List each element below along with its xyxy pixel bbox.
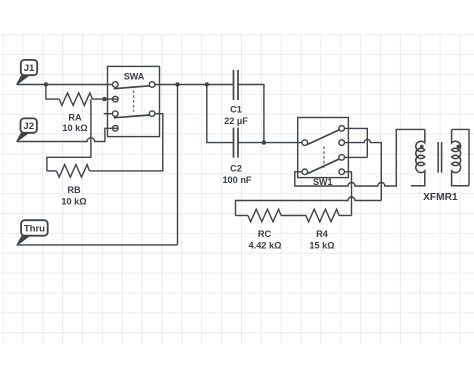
wire C1 right down bbox=[238, 85, 264, 143]
SWA pin 5 (right common pole1) bbox=[149, 82, 155, 88]
SW1 lever pole1 bbox=[307, 130, 338, 145]
svg-text:RA: RA bbox=[68, 113, 82, 123]
wire RC lead-in bbox=[236, 215, 249, 217]
capacitor C1 bbox=[234, 70, 239, 100]
SWA lever pole2 bbox=[114, 115, 150, 118]
wire SW1 row2 to RC (hop over row1 wire) bbox=[345, 139, 382, 200]
wire RA right end down bbox=[47, 99, 91, 171]
transformer XFMR1 core bbox=[438, 142, 441, 173]
svg-text:10 kΩ: 10 kΩ bbox=[61, 197, 86, 207]
SW1 pin right row4 bbox=[339, 169, 345, 175]
resistor R4 bbox=[306, 209, 339, 222]
svg-text:C2: C2 bbox=[230, 164, 242, 174]
wire Thru horizontal bbox=[17, 244, 178, 246]
svg-text:100 nF: 100 nF bbox=[222, 175, 251, 185]
SWA pin 2 (left row2) bbox=[113, 96, 119, 102]
wire SW1 row4 down to R4 bbox=[345, 172, 352, 216]
svg-text:XFMR1: XFMR1 bbox=[423, 192, 458, 203]
XFMR1 primary polarity dot bbox=[420, 145, 424, 149]
SW1 pin left common pole1 bbox=[302, 140, 308, 146]
node junction to C2 branch bbox=[205, 82, 209, 86]
svg-text:Thru: Thru bbox=[24, 223, 45, 234]
wire branch down to C2 bbox=[207, 85, 234, 143]
wire J2 to SWA pin4 (hop over RA wire) bbox=[17, 128, 119, 141]
wire SW1 pole2 to XFMR1 (hops over two verticals) bbox=[295, 129, 425, 186]
svg-text:J2: J2 bbox=[23, 121, 34, 132]
transformer XFMR1 primary winding bbox=[411, 129, 425, 185]
svg-text:22 µF: 22 µF bbox=[224, 116, 248, 126]
transformer XFMR1 secondary winding bbox=[452, 129, 469, 185]
wire Thru up to J1 net bbox=[177, 85, 179, 245]
svg-text:RB: RB bbox=[67, 185, 81, 195]
svg-text:RC: RC bbox=[258, 229, 272, 239]
svg-text:J1: J1 bbox=[24, 63, 35, 74]
SW1 pin right row1 bbox=[339, 126, 345, 132]
wire junction down to RA bbox=[46, 85, 59, 100]
node junction C1-C2 right bbox=[262, 140, 266, 144]
SW1 lever pole2 bbox=[307, 159, 338, 173]
SWA pin 1 (left row1) bbox=[113, 82, 119, 88]
net flag J1 bbox=[17, 74, 31, 84]
node junction Thru-C1 net bbox=[175, 82, 179, 86]
SWA pin 6 (right common pole2) bbox=[149, 111, 155, 117]
SW1 pin right row3 bbox=[339, 155, 345, 161]
resistor RB bbox=[57, 165, 90, 178]
net flag J2 bbox=[17, 132, 30, 142]
node junction RA-SWA pin2 bbox=[102, 97, 106, 101]
SWA mechanical link (dashed) bbox=[133, 90, 135, 111]
SWA lever pole1 bbox=[114, 86, 150, 89]
svg-text:R4: R4 bbox=[316, 229, 329, 239]
SW1 pin right row2 bbox=[339, 140, 345, 146]
SW1 mechanical link (dashed) bbox=[323, 146, 325, 168]
svg-text:4.42 kΩ: 4.42 kΩ bbox=[249, 241, 282, 251]
svg-text:C1: C1 bbox=[230, 104, 242, 114]
resistor RA bbox=[59, 93, 92, 106]
capacitor C2 bbox=[234, 128, 239, 158]
resistor RC bbox=[248, 209, 281, 222]
switch SW1 body bbox=[298, 118, 349, 178]
XFMR1 secondary polarity dot bbox=[457, 145, 461, 149]
wire XFMR1 secondary loop bbox=[452, 129, 469, 185]
net flag Thru bbox=[17, 235, 31, 245]
wire R4 lead-out bbox=[339, 215, 352, 217]
node junction on J1 wire bbox=[44, 82, 48, 86]
wire RA to SWA pin2 bbox=[92, 98, 118, 100]
wire C2 right to SW1 bbox=[238, 142, 302, 144]
wire horizontal to RC (hop over R4 wire) bbox=[236, 197, 382, 215]
wire SWA pin5 to C1 bbox=[155, 84, 234, 86]
wire RC to R4 bbox=[281, 215, 306, 217]
wire SW1 row1 to row3 bbox=[345, 128, 368, 157]
svg-text:SWA: SWA bbox=[124, 72, 145, 82]
switch SWA body bbox=[108, 66, 160, 136]
svg-text:15 kΩ: 15 kΩ bbox=[309, 241, 334, 251]
wire J1 to SWA pin1 bbox=[17, 84, 113, 86]
SWA pin 3 (left row3) bbox=[113, 111, 119, 117]
svg-text:10 kΩ: 10 kΩ bbox=[62, 123, 87, 133]
SWA pin 4 (left row4) bbox=[113, 126, 119, 132]
wire SW1 row3 stub bbox=[345, 156, 368, 158]
wire RB to SWA pin6 bbox=[90, 114, 163, 171]
SW1 pin left common pole2 bbox=[302, 169, 308, 175]
SWA row3 left stub bbox=[104, 113, 113, 115]
wire RB lead-in bbox=[47, 170, 57, 172]
